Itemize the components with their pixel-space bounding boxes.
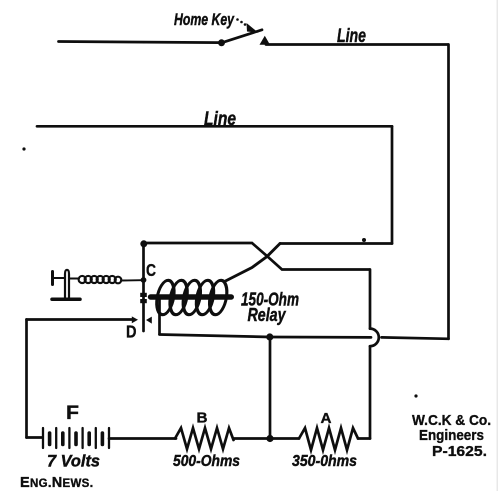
svg-text:500-Ohms: 500-Ohms (173, 453, 240, 470)
sounder link right (70, 278, 80, 280)
wire from armature C to crossing (upper-left branch) (144, 243, 370, 270)
sounder stub post (51, 272, 54, 285)
svg-text:Line: Line (204, 109, 236, 130)
svg-text:Line: Line (337, 26, 366, 47)
wire from Line2 to crossing (upper-right branch) (280, 242, 392, 245)
node C junction dot (140, 240, 147, 247)
bottom wire right of hop (382, 337, 449, 338)
relay core bar (151, 294, 232, 299)
armature contact blocks (140, 293, 147, 297)
wire Line2 vertical down (391, 126, 394, 243)
wire A to right vertical (358, 437, 370, 440)
stray dot left (22, 147, 25, 150)
stray dot near crossing (362, 238, 366, 242)
resistor A zigzag (299, 428, 358, 450)
stray dot above WCK (414, 394, 417, 397)
sounder lever frame (65, 270, 69, 299)
wire vertical below hop (369, 346, 372, 438)
sounder link (53, 277, 65, 279)
key lever (Home Key switch) (222, 30, 263, 43)
svg-text:F: F (66, 403, 79, 424)
svg-text:D: D (126, 322, 137, 342)
junction node on bottom wire (266, 333, 273, 340)
sounder base (52, 298, 80, 302)
battery F plates (27, 428, 110, 448)
key contact triangle (260, 36, 271, 45)
armature vertical (relay contact arm) (142, 243, 145, 331)
svg-text:P-1625.: P-1625. (432, 443, 487, 460)
wire hop over bottom wire (370, 329, 379, 347)
wire battery to resistor B (109, 437, 176, 440)
wire junction down to resistor junction (269, 337, 272, 439)
svg-text:Home Key: Home Key (174, 11, 235, 29)
wire left vertical battery to D (25, 320, 28, 438)
leader arrowhead (247, 23, 259, 33)
bottom wire from relay to right vertical (left part) (160, 335, 372, 338)
svg-text:Relay: Relay (248, 305, 287, 325)
relay coil loops (154, 280, 229, 314)
leader dots from Home Key label (236, 18, 246, 26)
svg-text:ENG.NEWS.: ENG.NEWS. (20, 475, 94, 491)
svg-text:350-0hms: 350-0hms (292, 453, 357, 470)
svg-text:C: C (146, 260, 156, 280)
wire Line2 horizontal (37, 125, 392, 128)
wire B to junction (234, 437, 300, 440)
key pivot junction (218, 39, 225, 46)
wire Line1 right segment (266, 43, 448, 46)
resistor B zigzag (175, 428, 234, 449)
spring tail wire (121, 279, 142, 281)
spring attach dot (141, 277, 147, 283)
relay left lead down (158, 298, 161, 334)
wire D from battery side with arrowhead (27, 318, 133, 321)
spring coil (79, 276, 122, 283)
svg-text:A: A (321, 410, 332, 427)
faint page edge line (496, 0, 498, 491)
wire crossing branch to relay coil (225, 244, 281, 282)
wire vertical to resistor A with hop (369, 270, 372, 329)
svg-text:7 Volts: 7 Volts (47, 452, 100, 471)
wire Line1 left segment (59, 42, 221, 43)
contact D arrowhead on armature (146, 317, 152, 324)
wire right vertical (Line1 down) (447, 45, 450, 339)
svg-text:B: B (197, 410, 208, 427)
svg-text:Engineers: Engineers (419, 427, 484, 444)
junction node resistors (266, 435, 273, 442)
